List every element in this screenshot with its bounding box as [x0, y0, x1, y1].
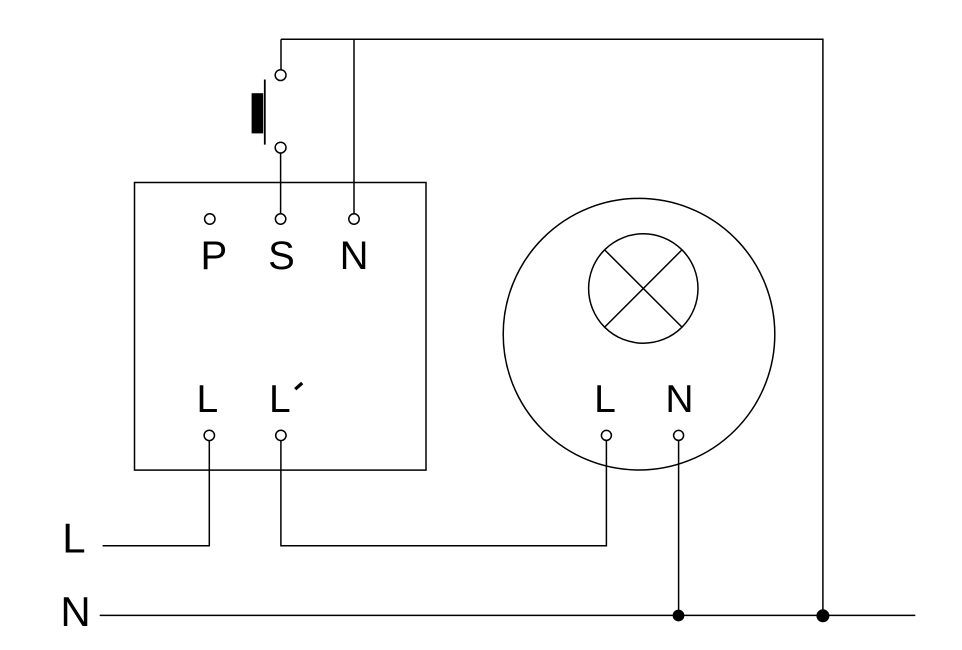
- svg-text:N: N: [60, 588, 90, 635]
- svg-text:L: L: [269, 378, 291, 421]
- svg-text:P: P: [200, 234, 227, 278]
- svg-text:L: L: [62, 514, 85, 561]
- svg-text:S: S: [268, 234, 295, 278]
- svg-text:N: N: [665, 378, 693, 421]
- svg-text:L: L: [196, 378, 218, 421]
- svg-text:L: L: [594, 378, 616, 421]
- svg-text:N: N: [340, 234, 369, 278]
